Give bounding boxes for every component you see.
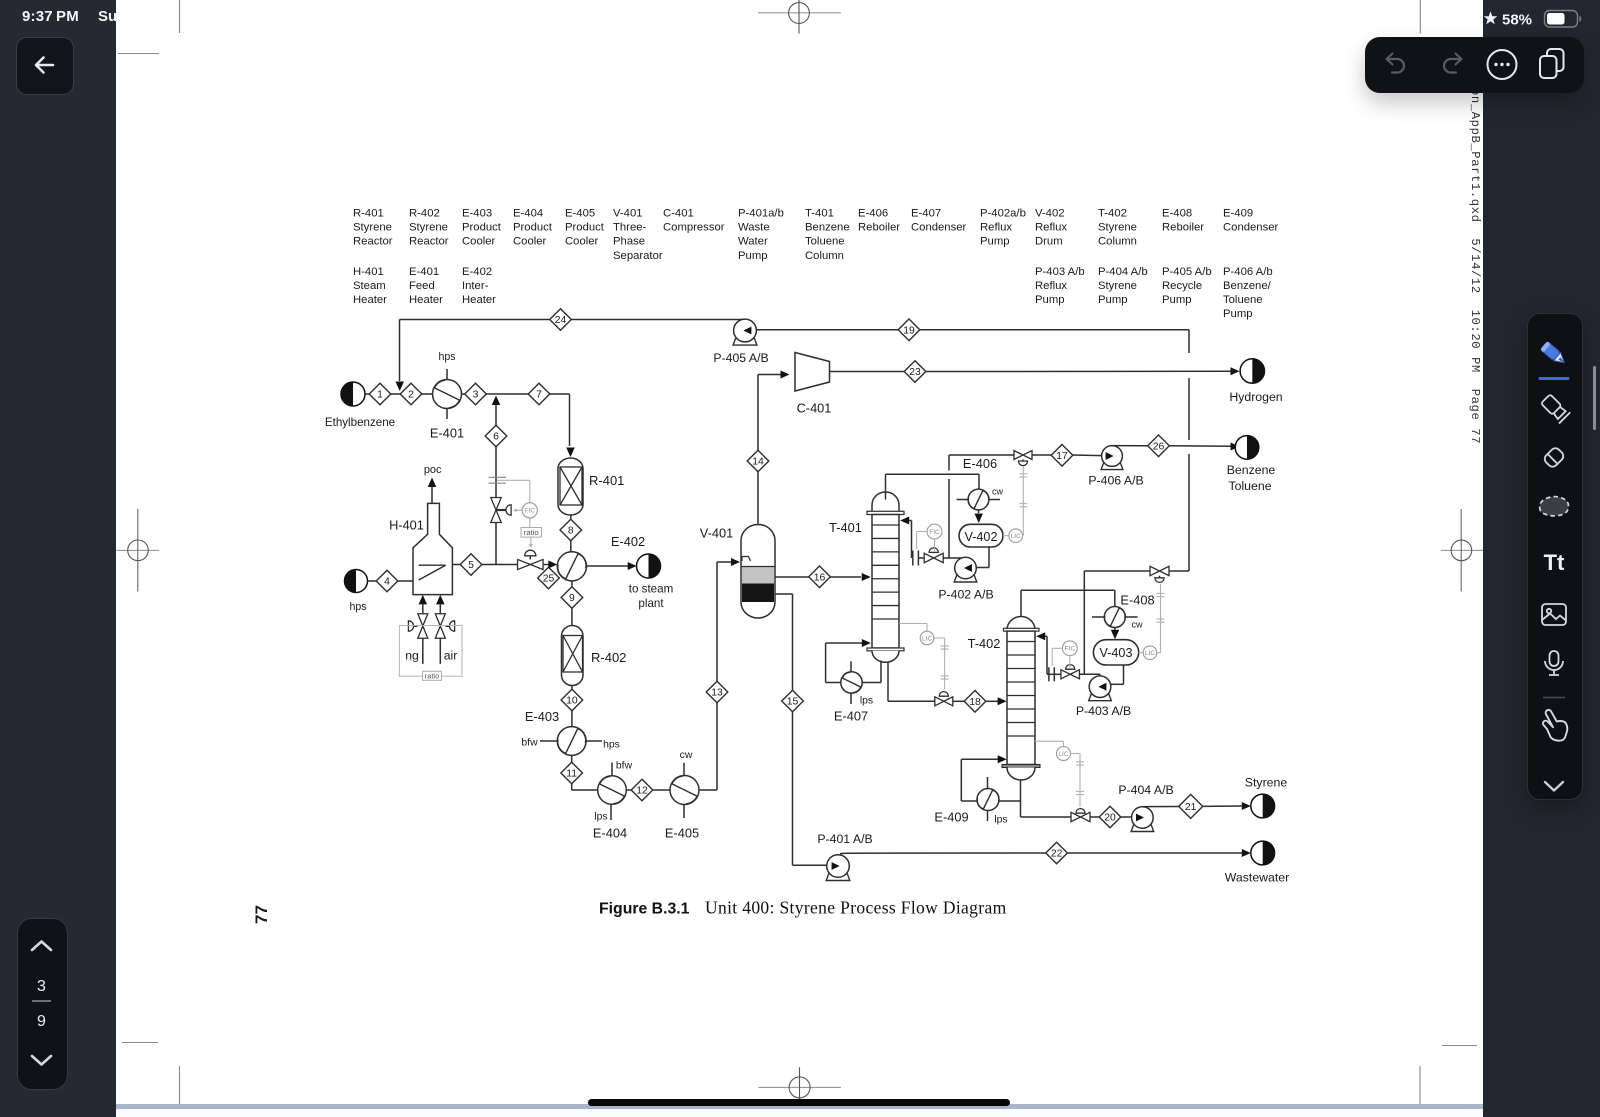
svg-text:Pump: Pump [1223,308,1253,320]
arrow wastewater [1242,849,1251,857]
svg-text:9: 9 [569,593,575,604]
svg-text:P-405 A/B: P-405 A/B [713,351,768,365]
svg-text:R-402: R-402 [591,650,626,665]
svg-text:air: air [444,649,458,663]
wire feed line [365,393,370,395]
image [1542,604,1566,625]
svg-text:Styrene: Styrene [1098,280,1137,292]
svg-text:E-407: E-407 [911,208,941,220]
svg-text:R-401: R-401 [353,208,384,220]
svg-text:H-401: H-401 [353,266,384,278]
wire T-401 bottoms [887,662,889,702]
svg-text:Ethylbenzene: Ethylbenzene [325,416,395,429]
svg-text:Heater: Heater [353,294,387,306]
scrollbar [1593,366,1596,430]
product Styrene [1251,794,1275,818]
reactor R-401 [558,458,583,515]
steam control valve [518,559,544,569]
svg-text:cw: cw [1132,620,1144,630]
svg-text:hps: hps [349,601,366,613]
arrow styrene [1242,802,1251,810]
controller FIC (steam ratio) [522,503,537,518]
node stream 24 [550,309,572,331]
reactor R-402 [562,626,584,686]
svg-text:E-406: E-406 [858,208,888,220]
wire V-402 to P-402 [988,547,990,568]
svg-text:22: 22 [1051,849,1063,860]
svg-text:Column: Column [1098,236,1137,248]
svg-text:R-401: R-401 [589,473,624,488]
svg-text:bfw: bfw [521,738,538,749]
svg-text:E-406: E-406 [963,456,997,471]
wire E-405 up to V-401 [699,789,717,791]
svg-text:Product: Product [462,222,502,234]
distillate valve (LIC) [1014,451,1032,460]
left sidebar [0,0,116,1117]
svg-text:E-401: E-401 [409,266,439,278]
stream 6 joins: arrow up [492,396,501,406]
svg-text:23: 23 [909,367,921,378]
svg-text:Cooler: Cooler [565,236,599,248]
svg-text:Figure B.3.1: Figure B.3.1 [599,901,690,918]
node stream 21 [1179,794,1203,818]
wire R-401 to E-402 [570,515,572,520]
V-401 dark band [742,584,774,603]
svg-text:E-404: E-404 [593,826,627,841]
svg-text:21: 21 [1185,802,1197,813]
wire T-402 bottoms [1020,780,1022,817]
recycle pump P-405 A/B [733,319,757,345]
product Wastewater [1251,841,1275,865]
node stream 2 [400,383,422,405]
condenser E-408 [1104,607,1125,628]
reflux pump P-402 A/B [954,557,977,582]
reboiler E-409 [977,789,999,811]
svg-text:Pump: Pump [980,236,1010,248]
svg-text:LIC: LIC [922,635,932,642]
node stream 14 [747,450,769,472]
svg-text:15: 15 [787,697,799,708]
wire V-403 to P-403 [1123,665,1125,684]
svg-text:Reactor: Reactor [409,236,449,248]
svg-text:20: 20 [1104,813,1116,824]
orifice bars T-402 reflux [1048,667,1050,681]
svg-text:P-402a/b: P-402a/b [980,208,1026,220]
svg-text:Styrene: Styrene [1245,776,1288,790]
node stream 25 [538,567,560,589]
air valve actuator [446,625,450,627]
reflux valve T-402 [1061,670,1080,679]
wire P-402 discharge / reflux [919,557,924,559]
svg-text:E-404: E-404 [513,208,543,220]
tool palette [1527,313,1583,800]
svg-text:FIC: FIC [524,508,535,515]
svg-text:Cooler: Cooler [513,236,547,248]
svg-text:Pump: Pump [1162,294,1192,306]
svg-text:16: 16 [814,572,826,583]
svg-text:8: 8 [568,526,574,537]
svg-text:E-402: E-402 [611,534,645,549]
svg-text:V-401: V-401 [613,208,643,220]
svg-text:Waste: Waste [738,222,770,234]
svg-text:11: 11 [566,769,577,780]
divider [1543,697,1565,699]
svg-text:E-405: E-405 [565,208,595,220]
bottoms valve T-402 [1071,812,1090,821]
svg-text:P-403 A/B: P-403 A/B [1076,704,1131,718]
svg-text:6: 6 [493,432,499,443]
hand [1543,710,1567,741]
node stream 8 [560,519,582,541]
bfw stub E-403 [540,740,557,742]
svg-text:Styrene: Styrene [353,222,392,234]
wire T-402 overhead to E-408 [1020,590,1022,616]
svg-text:Separator: Separator [613,250,663,262]
stem+actuator of steam valve [496,509,506,511]
node stream 5 [460,554,482,576]
svg-text:77: 77 [252,905,271,924]
svg-text:ng: ng [405,649,419,663]
wire steam header [482,564,518,566]
svg-text:ratio: ratio [524,528,539,537]
svg-text:P-403 A/b: P-403 A/b [1035,266,1085,278]
svg-text:cw: cw [680,750,693,761]
wire E-404 to E-405 [626,789,631,791]
column T-401 [872,492,899,513]
svg-text:Benzene: Benzene [1227,463,1276,477]
wire T-401 overhead to E-406 [885,474,887,499]
svg-text:T-401: T-401 [829,520,862,535]
svg-text:hps: hps [603,740,620,751]
svg-text:Wastewater: Wastewater [1225,871,1289,885]
wire reflux into T-401 [911,521,913,559]
wire hydrogen line 23 [830,371,905,373]
wire to P-406 [1032,454,1051,456]
svg-text:T-401: T-401 [805,208,834,220]
arrow hydrogen [1231,367,1240,375]
highlighter [1540,393,1570,423]
V-401 inlet pipe detail [742,557,751,562]
svg-text:E-401: E-401 [430,426,464,441]
svg-text:Toluene: Toluene [805,236,845,248]
floating toolbar top right [1365,37,1584,93]
svg-text:R-402: R-402 [409,208,440,220]
svg-text:E-409: E-409 [1223,208,1253,220]
wire P-404 to styrene [1142,806,1180,808]
svg-text:plant: plant [638,597,664,610]
status right [1481,9,1600,31]
cw stub E-405 [683,763,685,776]
ng valve [418,614,428,639]
svg-text:E-403: E-403 [525,709,559,724]
pump P-401 A/B [826,855,850,881]
svg-text:Column: Column [805,250,844,262]
svg-text:Inter-: Inter- [462,280,489,292]
heat exchanger E-403 [557,727,586,756]
node stream 9 [561,587,583,609]
node stream 18 [964,691,986,713]
wire V-401 overhead to C-401 [757,472,759,525]
signal line to FIC [497,479,530,481]
svg-text:E-408: E-408 [1162,208,1192,220]
svg-text:Heater: Heater [409,294,443,306]
svg-text:lps: lps [594,812,607,823]
wire steam out to steam plant [587,565,629,567]
svg-text:Condenser: Condenser [911,222,967,234]
node stream 20 [1099,806,1121,828]
lasso [1540,497,1569,516]
heat exchanger E-401 [433,380,462,409]
svg-text:5: 5 [468,560,474,571]
svg-text:P-402 A/B: P-402 A/B [938,588,993,602]
bottoms valve T-401 [935,697,953,706]
svg-text:Hydrogen: Hydrogen [1229,390,1282,404]
node stream 10 [561,689,583,711]
svg-text:C-401: C-401 [797,401,832,416]
styrene pump P-404 A/B [1131,807,1154,832]
svg-text:Drum: Drum [1035,236,1063,248]
node stream 3 [465,383,487,405]
svg-text:FIC: FIC [1064,646,1075,653]
wire line 19 [757,329,1190,331]
svg-text:Toluene: Toluene [1228,479,1271,493]
controller LIC T-402 bottoms [1035,740,1064,742]
svg-text:poc: poc [424,464,442,476]
svg-text:Tt: Tt [1544,550,1565,575]
node stream 22 [1046,842,1068,864]
svg-text:3: 3 [473,390,479,401]
arrow benzene/toluene [1231,443,1240,451]
svg-text:E-402: E-402 [462,266,492,278]
svg-text:Three-: Three- [613,222,647,234]
svg-text:Pump: Pump [738,250,768,262]
svg-text:Reactor: Reactor [353,236,393,248]
feed hps [345,570,368,593]
svg-text:hps: hps [438,351,455,363]
feed Ethylbenzene [341,382,365,406]
svg-text:ratio: ratio [425,672,439,681]
column T-402 [1007,617,1035,631]
svg-text:E-408: E-408 [1120,593,1154,608]
svg-text:cw: cw [992,487,1004,497]
recycle valve (to line 19) [1084,570,1150,572]
wire recycle branch down [1083,571,1085,674]
hps stub E-403 [586,740,602,742]
svg-text:C-401: C-401 [663,208,694,220]
poc vent arrow [431,486,433,503]
svg-text:3: 3 [37,978,46,995]
node stream 6 [485,425,507,447]
steam valve on stream 6 [491,498,502,523]
svg-text:Benzene: Benzene [805,222,850,234]
svg-text:Toluene: Toluene [1223,294,1263,306]
svg-text:lps: lps [860,696,873,707]
wire E-402 to R-402 [571,581,573,587]
V-401 light band [742,567,774,584]
svg-text:Steam: Steam [353,280,386,292]
wire E-407 loop [826,682,841,684]
svg-text:Unit 400: Styrene Process Flow: Unit 400: Styrene Process Flow Diagram [705,898,1007,918]
node stream 19 [898,319,920,341]
node stream 15 [782,690,804,712]
back button [16,37,74,95]
reflux control valve [924,553,943,562]
pump P-406 A/B [1101,446,1123,470]
svg-text:P-404 A/b: P-404 A/b [1098,266,1148,278]
svg-text:P-401 A/B: P-401 A/B [817,832,872,846]
svg-text:E-405: E-405 [665,826,699,841]
svg-text:Reflux: Reflux [980,222,1012,234]
svg-text:V-401: V-401 [700,526,733,541]
svg-text:Reflux: Reflux [1035,222,1067,234]
svg-text:Product: Product [513,222,553,234]
reflux drum V-403 [1093,640,1138,665]
svg-text:Condenser: Condenser [1223,222,1279,234]
product Benzene Toluene [1235,436,1259,460]
svg-text:Heater: Heater [462,294,496,306]
wire wastewater line 22 [840,852,846,854]
bfw stub E-404 [611,763,613,776]
wire E-409 loop [961,800,977,802]
wire stream 6 vertical [495,405,497,426]
svg-text:1: 1 [377,390,383,401]
node stream 4 [376,570,398,592]
reflux drum V-402 [959,524,1003,547]
controller LIC V-402 [1003,535,1009,537]
node stream 17 [1051,445,1073,467]
wire stream 5 from furnace [452,564,460,566]
page nav widget [17,918,68,1090]
eraser [1543,446,1566,469]
separator V-401 [741,525,775,619]
svg-text:24: 24 [555,315,567,326]
right sidebar [1483,0,1600,1117]
svg-text:18: 18 [969,697,981,708]
ratio control box [399,626,462,677]
svg-text:Styrene: Styrene [409,222,448,234]
ratio box [521,528,542,538]
svg-text:Cooler: Cooler [462,236,496,248]
svg-text:E-407: E-407 [834,709,868,724]
controller FIC T-402 reflux [1062,641,1077,656]
arrow into T-402 [998,697,1007,705]
reboiler E-407 [841,672,862,693]
arrow into T-401 [862,573,871,581]
svg-text:Water: Water [738,236,768,248]
svg-text:25: 25 [543,574,555,585]
wire hps to H-401 [368,580,377,582]
controller LIC V-403 [1139,652,1143,654]
svg-text:14: 14 [752,457,764,468]
svg-text:4: 4 [384,577,390,588]
arrow into R-401 [566,448,575,458]
svg-text:13: 13 [711,688,723,699]
svg-text:Pump: Pump [1098,294,1128,306]
air valve [435,614,445,639]
node stream 12 [631,779,653,801]
svg-text:bfw: bfw [616,761,633,772]
svg-text:V-402: V-402 [965,530,998,544]
svg-text:LIC: LIC [1145,650,1155,657]
node stream 13 [706,681,728,703]
heat exchanger E-405 [670,776,699,805]
svg-text:10: 10 [566,696,578,707]
node stream 23 [904,361,926,383]
heat exchanger E-404 [598,776,627,805]
arrow into V-401 [731,558,740,566]
svg-text:Compressor: Compressor [663,222,725,234]
svg-text:Styrene: Styrene [1098,222,1137,234]
svg-text:E-403: E-403 [462,208,492,220]
svg-text:P-406 A/b: P-406 A/b [1223,266,1273,278]
lps stub E-404 [610,804,612,820]
wire P-403 discharge / reflux T-402 [1099,674,1101,676]
svg-text:V-402: V-402 [1035,208,1065,220]
svg-text:7: 7 [536,390,542,401]
arrow into C-401 [781,371,790,379]
svg-text:Pump: Pump [1035,294,1065,306]
home indicator [588,1099,1010,1106]
furnace coil zigzag [419,564,446,566]
node stream 16 [809,566,831,588]
svg-text:P-404 A/B: P-404 A/B [1118,783,1173,797]
orifice ticks on stream 6 [489,476,507,478]
arrow E-406 to V-402 [978,510,980,513]
wire recycle line 24 [400,319,745,321]
wire P-406 to product 26 [1112,445,1148,447]
svg-text:Benzene/: Benzene/ [1223,280,1272,292]
controller FIC reflux [927,524,942,539]
chevron [1545,782,1563,791]
svg-text:58%: 58% [1502,12,1532,29]
svg-text:to steam: to steam [629,583,673,596]
node stream 26 [1148,435,1170,457]
node stream 11 [561,762,583,784]
node stream 1 [369,383,391,405]
ng valve actuator [414,625,418,627]
svg-text:Reflux: Reflux [1035,280,1067,292]
heat exchanger E-402 [557,552,586,581]
arrow E-408 to V-403 [1114,628,1116,631]
svg-text:2: 2 [408,390,414,401]
controller LIC T-401 [899,623,927,625]
svg-text:P-405 A/b: P-405 A/b [1162,266,1212,278]
ng/air burner lines [419,595,428,605]
wire V-401 water leg stream 15 [775,593,793,595]
wire E-403 down to E-404 [571,755,573,762]
svg-text:26: 26 [1153,441,1165,452]
node stream 7 [528,383,550,405]
svg-text:V-403: V-403 [1100,646,1133,660]
svg-text:on_AppB_Part1.qxd 5/14/12 10: on_AppB_Part1.qxd 5/14/12 10:20 PM Page … [1468,88,1482,444]
svg-text:T-402: T-402 [1098,208,1127,220]
wire R-402 to E-403 [571,686,573,690]
svg-text:17: 17 [1056,451,1068,462]
svg-text:9: 9 [37,1013,46,1030]
junction arrow into feed line [395,382,404,392]
svg-text:12: 12 [636,786,648,797]
svg-text:lps: lps [994,815,1007,826]
compressor C-401 [795,353,830,392]
svg-text:Recycle: Recycle [1162,280,1202,292]
svg-text:LIC: LIC [1058,751,1068,758]
mic [1545,651,1563,675]
svg-text:FIC: FIC [929,529,940,536]
condenser E-406 [968,489,989,510]
svg-text:Phase: Phase [613,236,645,248]
product to steam plant [637,554,661,578]
reflux pump P-403 A/B [1089,676,1112,701]
